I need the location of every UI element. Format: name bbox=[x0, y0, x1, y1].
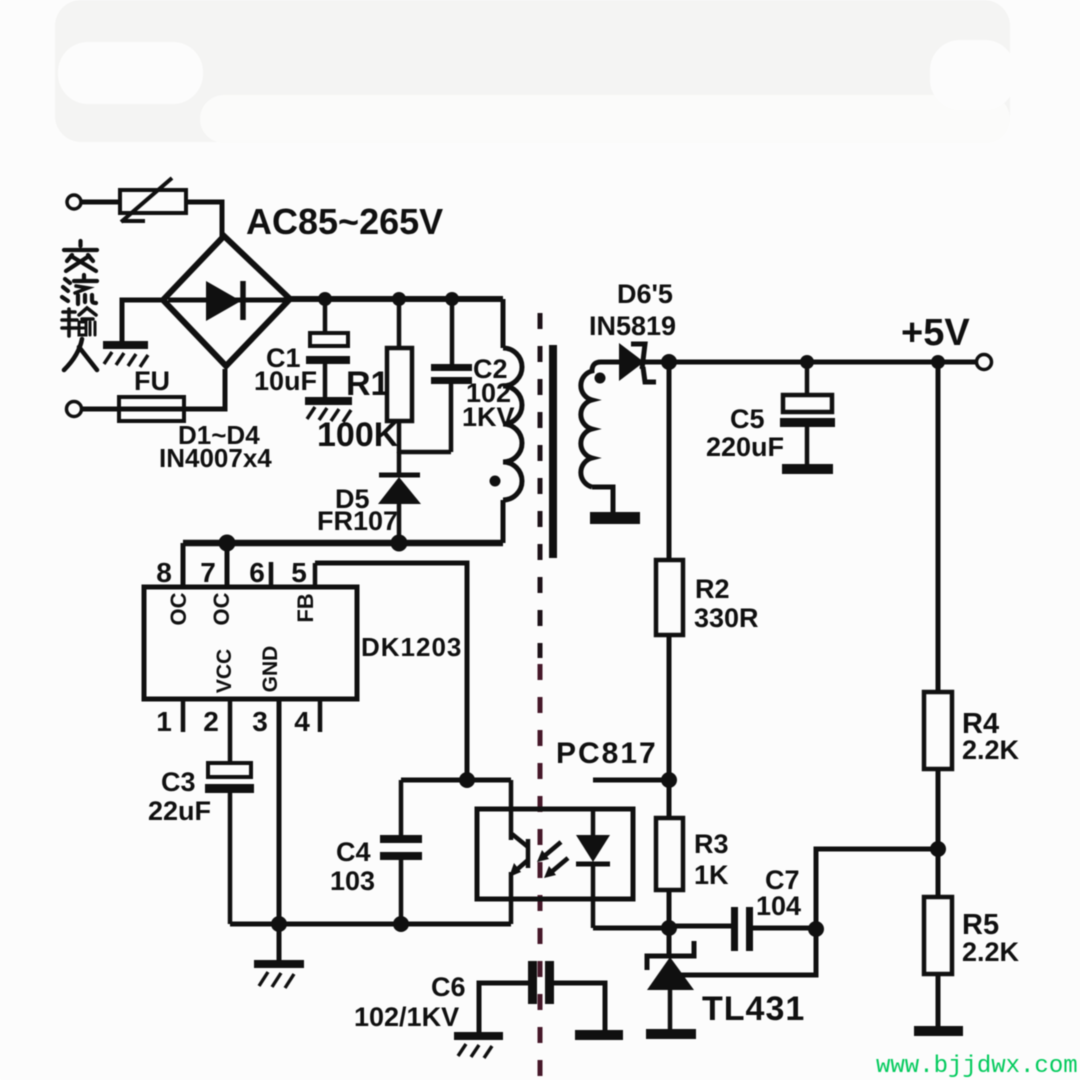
ground C6 right bbox=[575, 1030, 623, 1040]
ground G1 bbox=[103, 345, 148, 367]
svg-text:103: 103 bbox=[330, 866, 375, 896]
svg-text:AC85~265V: AC85~265V bbox=[246, 201, 443, 242]
capacitor C6 bbox=[479, 961, 605, 1033]
transformer T1 primary bbox=[490, 299, 523, 543]
node pin7 bbox=[219, 535, 236, 552]
char shu bbox=[62, 308, 96, 336]
node gnd pin3 bbox=[271, 916, 287, 932]
scan artifact band top bbox=[55, 0, 1015, 143]
svg-text:102/1KV: 102/1KV bbox=[354, 1002, 459, 1032]
isolation dashed line upper bbox=[538, 313, 543, 658]
resistor R4 bbox=[924, 692, 952, 769]
svg-text:2.2K: 2.2K bbox=[962, 735, 1020, 765]
node C4 bottom bbox=[393, 916, 409, 932]
svg-text:C5: C5 bbox=[730, 404, 765, 434]
terminal J1 top AC input bbox=[67, 195, 81, 209]
capacitor C4 bbox=[380, 780, 422, 924]
svg-text:1K: 1K bbox=[694, 860, 729, 890]
svg-text:C4: C4 bbox=[336, 837, 371, 867]
svg-text:7: 7 bbox=[200, 557, 216, 588]
svg-text:OC: OC bbox=[209, 592, 234, 625]
ground C6 left bbox=[454, 1036, 503, 1058]
svg-text:3: 3 bbox=[252, 706, 268, 737]
ground G3 bbox=[254, 964, 304, 988]
fuse FU bbox=[119, 397, 184, 421]
svg-text:+5V: +5V bbox=[901, 312, 970, 354]
svg-text:C3: C3 bbox=[161, 767, 196, 797]
wire bbox=[936, 769, 941, 897]
IC U1 DK1203 bbox=[144, 543, 357, 732]
wire main DC bus bbox=[290, 296, 503, 302]
capacitor C2 bbox=[431, 299, 472, 452]
svg-text:PC817: PC817 bbox=[556, 737, 658, 770]
svg-text:C6: C6 bbox=[431, 972, 466, 1002]
wire R2 branch bbox=[667, 362, 672, 560]
svg-text:8: 8 bbox=[156, 557, 172, 588]
capacitor C3 bbox=[205, 699, 254, 924]
svg-text:FB: FB bbox=[293, 593, 318, 622]
svg-text:GND: GND bbox=[259, 646, 282, 693]
svg-text:22uF: 22uF bbox=[148, 796, 211, 826]
svg-text:OC: OC bbox=[166, 592, 191, 625]
wire bbox=[936, 974, 941, 1028]
svg-text:www.bjjdwx.com: www.bjjdwx.com bbox=[876, 1053, 1078, 1080]
wire FB to opto bbox=[401, 778, 511, 783]
ground secondary winding bbox=[590, 512, 640, 524]
svg-text:TL431: TL431 bbox=[702, 990, 805, 1028]
terminal +5V output bbox=[977, 355, 992, 370]
capacitor C5 bbox=[780, 362, 835, 474]
svg-text:2: 2 bbox=[203, 706, 219, 737]
resistor R2 bbox=[656, 560, 683, 635]
svg-text:FR107: FR107 bbox=[317, 506, 398, 536]
wire primary gnd rail bbox=[230, 922, 511, 927]
svg-text:R2: R2 bbox=[695, 574, 730, 604]
wire bbox=[122, 300, 163, 342]
resistor R5 bbox=[924, 897, 952, 974]
node D5 anode bbox=[391, 535, 408, 552]
node bus-C1 bbox=[318, 292, 332, 306]
svg-text:6: 6 bbox=[249, 557, 265, 588]
svg-text:1: 1 bbox=[156, 706, 172, 737]
wire pin3 to gnd bbox=[277, 699, 282, 961]
svg-text:FU: FU bbox=[134, 366, 170, 396]
svg-text:5: 5 bbox=[291, 557, 307, 588]
svg-text:4: 4 bbox=[294, 706, 310, 737]
varistor RV bbox=[120, 178, 186, 222]
node bus-R1 bbox=[392, 292, 406, 306]
chinese text AC input bbox=[62, 241, 97, 370]
bridge rectifier D1-D4 bbox=[163, 236, 290, 366]
svg-text:100K: 100K bbox=[317, 416, 399, 454]
wire bbox=[667, 635, 672, 780]
node TL431 cathode bbox=[661, 920, 677, 936]
capacitor C7 bbox=[669, 907, 816, 951]
isolation dashed line lower bbox=[538, 664, 543, 1080]
wire snubber bottom bbox=[399, 450, 451, 455]
svg-text:R3: R3 bbox=[694, 829, 729, 859]
wire opto cathode bottom bbox=[593, 926, 669, 931]
wire bbox=[82, 369, 225, 409]
svg-text:104: 104 bbox=[756, 891, 801, 921]
wire R4 branch bbox=[936, 362, 941, 692]
svg-text:IN5819: IN5819 bbox=[589, 311, 676, 341]
svg-text:R1: R1 bbox=[346, 365, 389, 403]
svg-text:VCC: VCC bbox=[213, 649, 236, 693]
char liu bbox=[62, 275, 97, 304]
wire TL431 ref bbox=[680, 929, 816, 975]
node FB junction bbox=[459, 772, 475, 788]
node divider mid bbox=[930, 841, 946, 857]
node opto anode bbox=[661, 772, 677, 788]
svg-text:2.2K: 2.2K bbox=[962, 937, 1020, 967]
svg-text:IN4007x4: IN4007x4 bbox=[159, 443, 272, 473]
transformer T1 secondary bbox=[581, 362, 619, 514]
diode D6 bbox=[619, 343, 656, 382]
node C7 right bbox=[808, 921, 824, 937]
svg-text:330R: 330R bbox=[694, 603, 759, 633]
wire bbox=[667, 928, 672, 956]
wire feedback tap bbox=[816, 849, 938, 929]
node C5 top bbox=[800, 355, 814, 369]
resistor R1 bbox=[387, 299, 412, 453]
node D6 out bbox=[661, 354, 677, 370]
svg-text:220uF: 220uF bbox=[706, 432, 784, 462]
ground R5 bbox=[914, 1026, 963, 1036]
transformer core bbox=[549, 345, 557, 558]
wire bbox=[81, 200, 120, 205]
char ru bbox=[64, 339, 97, 370]
svg-text:D6'5: D6'5 bbox=[617, 279, 673, 309]
ground G2 bbox=[305, 401, 352, 422]
shunt regulator TL431 bbox=[646, 941, 696, 1039]
svg-text:DK1203: DK1203 bbox=[361, 632, 462, 662]
node R4 top bbox=[931, 355, 945, 369]
wire FB line bbox=[315, 563, 467, 780]
optocoupler PC817 bbox=[477, 780, 633, 928]
diode D5 bbox=[378, 452, 421, 543]
svg-text:1KV: 1KV bbox=[462, 402, 515, 432]
wire primary return bbox=[183, 540, 503, 547]
wire opto anode top bbox=[593, 778, 669, 783]
wire +5V bus bbox=[645, 360, 977, 365]
resistor R3 bbox=[656, 780, 683, 928]
capacitor C1 bbox=[306, 299, 350, 398]
char jiao bbox=[64, 241, 97, 271]
svg-text:10uF: 10uF bbox=[254, 366, 317, 396]
node bus-C2 bbox=[445, 292, 459, 306]
wire bbox=[186, 202, 222, 238]
terminal J2 bottom AC input bbox=[67, 402, 82, 417]
